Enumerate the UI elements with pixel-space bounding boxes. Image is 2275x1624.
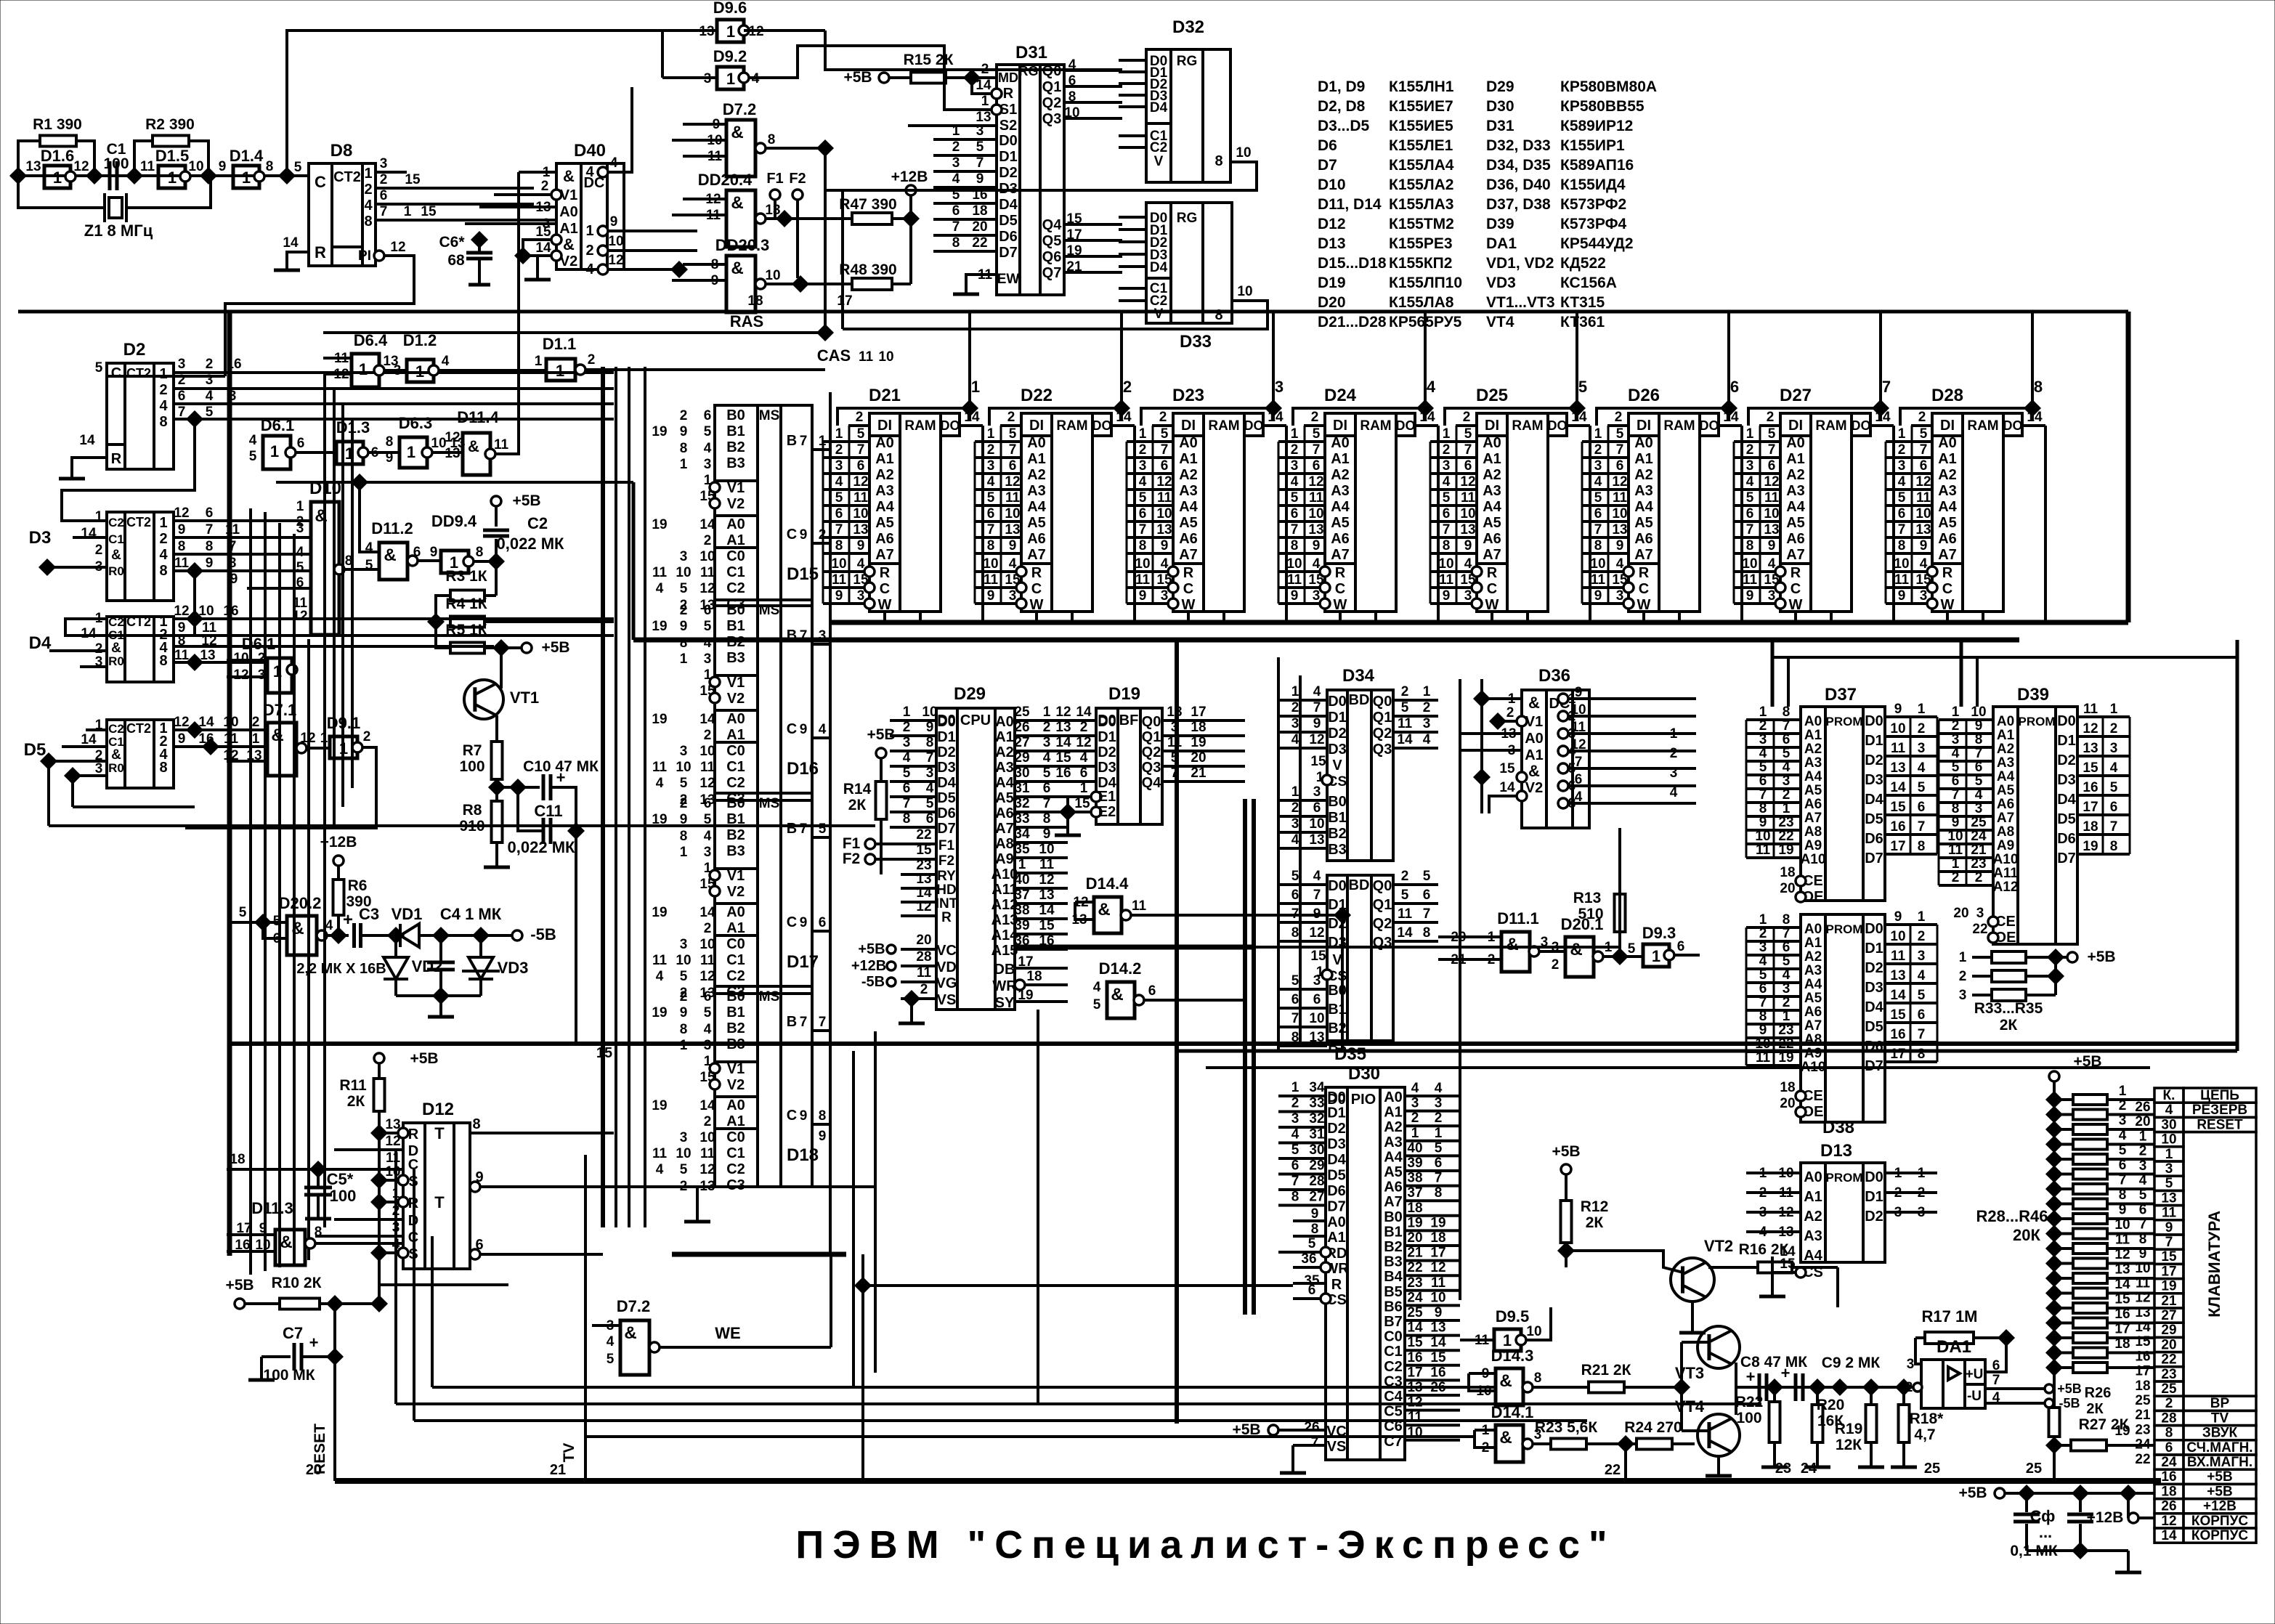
svg-text:2: 2	[1411, 1111, 1419, 1126]
svg-text:20: 20	[1191, 750, 1206, 766]
svg-text:20: 20	[1953, 906, 1968, 921]
svg-text:2: 2	[1291, 1096, 1299, 1111]
svg-text:7: 7	[1746, 522, 1754, 537]
svg-text:D1.6: D1.6	[41, 147, 74, 165]
svg-text:7: 7	[1975, 746, 1983, 761]
svg-text:8: 8	[987, 538, 995, 553]
svg-text:13: 13	[976, 110, 991, 125]
svg-text:23: 23	[2135, 1422, 2150, 1437]
svg-text:C0: C0	[726, 548, 745, 564]
svg-text:9: 9	[800, 527, 808, 543]
svg-text:6: 6	[1291, 1158, 1299, 1174]
svg-text:2: 2	[1759, 718, 1767, 734]
svg-text:2: 2	[1552, 957, 1560, 973]
svg-text:КОРПУС: КОРПУС	[2191, 1528, 2249, 1543]
svg-text:2: 2	[1767, 410, 1775, 425]
svg-text:D3: D3	[1865, 772, 1883, 788]
svg-text:8: 8	[1291, 1190, 1299, 1205]
svg-text:32: 32	[1309, 1111, 1324, 1126]
svg-text:К573РФ4: К573РФ4	[1560, 216, 1627, 232]
svg-text:D1: D1	[937, 729, 956, 745]
svg-text:D39: D39	[1486, 216, 1514, 232]
svg-text:11: 11	[1461, 490, 1476, 506]
svg-text:W: W	[1030, 597, 1044, 613]
svg-text:CPU: CPU	[960, 712, 991, 728]
svg-text:A3: A3	[1027, 483, 1046, 499]
svg-text:18: 18	[1780, 865, 1795, 880]
svg-text:7: 7	[1443, 522, 1451, 537]
svg-text:B3: B3	[726, 843, 745, 859]
svg-text:13: 13	[2114, 1262, 2130, 1278]
svg-text:DD20.4: DD20.4	[698, 171, 753, 189]
svg-text:27: 27	[2161, 1308, 2176, 1323]
svg-text:B3: B3	[726, 650, 745, 666]
svg-text:10: 10	[922, 705, 937, 720]
svg-text:22: 22	[1778, 829, 1793, 844]
svg-text:&: &	[731, 259, 743, 278]
svg-text:9: 9	[1043, 827, 1051, 842]
svg-text:C: C	[787, 914, 797, 930]
svg-text:R24 270: R24 270	[1624, 1419, 1682, 1436]
svg-text:A0: A0	[1179, 435, 1198, 451]
svg-text:10: 10	[1039, 842, 1054, 857]
svg-text:R: R	[1183, 565, 1194, 581]
svg-text:К155ЛП10: К155ЛП10	[1389, 275, 1462, 291]
svg-text:2: 2	[1080, 720, 1088, 735]
svg-text:9: 9	[1768, 538, 1776, 553]
svg-text:9: 9	[976, 171, 984, 187]
svg-text:B: B	[787, 821, 797, 837]
svg-text:R5 1К: R5 1К	[445, 622, 487, 638]
svg-text:19: 19	[652, 812, 667, 827]
svg-text:+5В: +5В	[2207, 1484, 2232, 1499]
svg-text:12: 12	[73, 159, 89, 174]
svg-text:14: 14	[1397, 732, 1413, 747]
svg-text:D14.1: D14.1	[1491, 1403, 1534, 1421]
svg-text:2: 2	[1423, 700, 1431, 715]
svg-text:D0: D0	[1328, 694, 1347, 710]
svg-text:Q0: Q0	[1042, 63, 1062, 79]
svg-text:6: 6	[1161, 458, 1169, 474]
svg-text:23: 23	[1778, 815, 1793, 830]
svg-text:1: 1	[680, 457, 688, 472]
svg-text:C: C	[787, 1108, 797, 1124]
svg-text:5: 5	[2165, 1176, 2173, 1191]
svg-text:DO: DO	[941, 418, 960, 433]
svg-text:12: 12	[1076, 735, 1091, 750]
svg-text:3: 3	[2165, 1161, 2173, 1177]
svg-text:1: 1	[1443, 426, 1451, 442]
svg-text:A5: A5	[995, 790, 1014, 806]
svg-text:7: 7	[1161, 442, 1169, 458]
svg-text:D20.2: D20.2	[279, 894, 322, 912]
svg-text:Q3: Q3	[1042, 111, 1062, 127]
svg-text:B3: B3	[1328, 842, 1347, 858]
svg-text:S: S	[408, 1174, 418, 1190]
svg-text:8: 8	[680, 829, 688, 844]
svg-text:VS: VS	[937, 992, 957, 1008]
svg-text:3: 3	[394, 363, 402, 378]
svg-text:3: 3	[903, 735, 911, 750]
svg-text:20К: 20К	[2013, 1226, 2040, 1244]
svg-text:D4: D4	[999, 197, 1018, 213]
svg-text:C: C	[315, 173, 326, 191]
svg-text:CT2: CT2	[126, 515, 151, 529]
svg-text:VT2: VT2	[1704, 1237, 1733, 1255]
svg-text:11: 11	[1894, 572, 1910, 588]
svg-text:2: 2	[680, 408, 688, 423]
svg-text:A2: A2	[1331, 467, 1350, 483]
svg-text:D2: D2	[1328, 726, 1347, 742]
svg-text:20: 20	[2135, 1114, 2150, 1129]
svg-text:RAM: RAM	[1056, 418, 1087, 434]
svg-text:-5В: -5В	[530, 925, 556, 943]
svg-text:MS: MS	[759, 989, 780, 1004]
svg-text:VD: VD	[936, 959, 957, 975]
svg-text:23: 23	[916, 858, 931, 873]
svg-text:14: 14	[976, 78, 991, 93]
svg-text:3: 3	[1898, 458, 1906, 474]
svg-text:A7: A7	[1179, 547, 1198, 563]
svg-text:8: 8	[1759, 1009, 1767, 1024]
svg-text:A1: A1	[1179, 451, 1198, 467]
svg-text:3: 3	[1976, 906, 1984, 921]
svg-text:5: 5	[249, 449, 257, 464]
svg-text:18: 18	[1026, 969, 1042, 984]
svg-text:3: 3	[857, 588, 865, 604]
svg-text:7: 7	[952, 219, 960, 235]
svg-text:5: 5	[835, 490, 843, 506]
svg-text:17: 17	[837, 293, 852, 309]
svg-text:V: V	[1154, 306, 1164, 322]
svg-text:15: 15	[1499, 761, 1515, 776]
svg-text:9: 9	[1435, 1305, 1443, 1320]
svg-text:7: 7	[835, 522, 843, 537]
svg-text:6: 6	[1043, 781, 1051, 796]
svg-text:1: 1	[1411, 1126, 1419, 1141]
svg-text:10: 10	[1438, 556, 1453, 572]
svg-text:A4: A4	[1331, 499, 1350, 515]
svg-text:A2: A2	[1634, 467, 1653, 483]
svg-text:12: 12	[2135, 1291, 2150, 1306]
svg-text:10: 10	[1894, 556, 1909, 572]
svg-text:22: 22	[1605, 1462, 1621, 1478]
svg-text:10: 10	[2161, 1132, 2176, 1148]
svg-text:V2: V2	[727, 884, 745, 900]
svg-text:15: 15	[421, 204, 437, 219]
svg-text:DA1: DA1	[1937, 1337, 1971, 1357]
svg-text:2: 2	[1594, 442, 1602, 458]
svg-text:D3: D3	[937, 760, 956, 776]
svg-text:DO: DO	[2003, 418, 2023, 433]
svg-text:S2: S2	[999, 118, 1017, 134]
svg-text:19: 19	[652, 517, 667, 532]
svg-text:8: 8	[1214, 153, 1222, 169]
svg-text:3: 3	[1594, 458, 1602, 474]
svg-text:C: C	[1487, 581, 1497, 597]
svg-text:6: 6	[704, 989, 712, 1004]
svg-text:17: 17	[1191, 705, 1206, 720]
svg-text:8: 8	[386, 434, 394, 450]
svg-text:10: 10	[1526, 1324, 1541, 1339]
svg-text:1: 1	[971, 378, 980, 396]
svg-text:8: 8	[1952, 801, 1960, 816]
svg-text:&: &	[1499, 1428, 1512, 1448]
svg-text:12: 12	[2161, 1514, 2176, 1529]
svg-text:КЛАВИАТУРА: КЛАВИАТУРА	[2205, 1211, 2223, 1318]
svg-text:R: R	[1335, 565, 1346, 581]
svg-text:10: 10	[1590, 556, 1605, 572]
svg-text:D39: D39	[2017, 685, 2049, 705]
svg-text:4: 4	[1783, 967, 1791, 983]
svg-text:11: 11	[700, 953, 715, 968]
svg-text:2: 2	[920, 982, 928, 997]
svg-text:5: 5	[680, 776, 688, 791]
svg-text:3: 3	[1411, 1096, 1419, 1111]
svg-text:D19: D19	[1108, 684, 1140, 704]
svg-text:11: 11	[700, 760, 715, 775]
svg-text:17: 17	[2161, 1264, 2176, 1279]
svg-text:3: 3	[1313, 588, 1321, 604]
svg-text:32: 32	[1014, 796, 1029, 811]
svg-text:27: 27	[1014, 735, 1029, 750]
svg-text:6: 6	[1009, 458, 1017, 474]
svg-text:3: 3	[680, 549, 688, 564]
svg-text:9: 9	[857, 538, 865, 553]
svg-text:К155ИД4: К155ИД4	[1560, 176, 1626, 193]
svg-text:20: 20	[2161, 1337, 2176, 1352]
svg-text:14: 14	[1499, 780, 1515, 795]
svg-text:+: +	[343, 910, 353, 930]
svg-text:11: 11	[1916, 490, 1931, 506]
svg-text:9: 9	[1759, 815, 1767, 830]
svg-text:D32: D32	[1172, 17, 1204, 37]
svg-text:D1.5: D1.5	[155, 147, 189, 165]
svg-text:6: 6	[1952, 774, 1960, 789]
svg-text:2: 2	[585, 243, 593, 259]
svg-text:5: 5	[95, 360, 103, 375]
svg-text:RAS: RAS	[730, 312, 763, 330]
svg-text:3: 3	[2139, 1158, 2147, 1174]
svg-text:Q2: Q2	[1373, 916, 1392, 932]
svg-text:10: 10	[1309, 1011, 1324, 1026]
svg-text:&: &	[111, 548, 121, 563]
svg-text:2: 2	[1007, 410, 1015, 425]
svg-text:3: 3	[392, 1220, 400, 1235]
svg-text:11: 11	[652, 953, 668, 968]
svg-text:A3: A3	[1179, 483, 1198, 499]
svg-text:3: 3	[1423, 716, 1431, 731]
svg-text:3: 3	[1291, 716, 1299, 731]
svg-text:2: 2	[2165, 1396, 2173, 1411]
svg-text:12: 12	[445, 430, 460, 445]
svg-text:7: 7	[1139, 522, 1147, 537]
svg-text:D0: D0	[1865, 921, 1883, 937]
svg-text:C1: C1	[108, 532, 124, 546]
svg-text:13: 13	[2161, 1190, 2176, 1206]
svg-text:15: 15	[1890, 800, 1906, 815]
svg-text:17: 17	[2114, 1322, 2130, 1337]
svg-text:Q2: Q2	[1373, 726, 1392, 742]
svg-text:13: 13	[1764, 522, 1779, 537]
svg-text:D5: D5	[1327, 1168, 1346, 1184]
svg-text:C4 1 МК: C4 1 МК	[440, 905, 502, 923]
svg-text:2: 2	[1139, 442, 1147, 458]
svg-text:15: 15	[699, 489, 715, 504]
svg-text:R10 2К: R10 2К	[272, 1275, 322, 1291]
svg-text:4: 4	[903, 750, 911, 766]
svg-text:A3: A3	[1938, 483, 1957, 499]
svg-text:8: 8	[159, 653, 167, 669]
svg-text:R: R	[408, 1195, 419, 1211]
svg-text:6: 6	[857, 458, 865, 474]
svg-text:5: 5	[1783, 954, 1791, 969]
svg-text:14: 14	[1875, 410, 1891, 425]
svg-text:5: 5	[1291, 490, 1299, 506]
svg-text:ВХ.МАГН.: ВХ.МАГН.	[2187, 1455, 2252, 1470]
svg-text:21: 21	[2135, 1408, 2151, 1423]
svg-text:5: 5	[1161, 426, 1169, 442]
svg-text:A10: A10	[1993, 852, 2019, 867]
svg-text:3: 3	[1783, 981, 1791, 996]
svg-text:D16: D16	[787, 759, 819, 779]
svg-text:23: 23	[1971, 856, 1986, 872]
svg-text:9: 9	[178, 731, 186, 747]
svg-text:+5В: +5В	[1958, 1485, 1987, 1501]
svg-text:5: 5	[1464, 426, 1472, 442]
svg-text:15: 15	[1310, 949, 1326, 964]
svg-text:8: 8	[680, 441, 688, 456]
svg-text:DA1: DA1	[1486, 235, 1517, 252]
svg-text:A2: A2	[1179, 467, 1198, 483]
svg-text:1: 1	[1759, 705, 1767, 720]
svg-text:6: 6	[819, 915, 827, 930]
svg-text:DO: DO	[1396, 418, 1416, 433]
svg-text:A8: A8	[1997, 824, 2014, 840]
svg-text:12: 12	[2083, 721, 2098, 736]
svg-text:R47 390: R47 390	[839, 196, 896, 213]
svg-text:D9.3: D9.3	[1642, 924, 1676, 942]
svg-text:A5: A5	[1786, 515, 1805, 531]
svg-text:4: 4	[159, 398, 168, 414]
svg-text:4: 4	[1291, 474, 1299, 490]
svg-text:8: 8	[680, 1022, 688, 1037]
svg-text:W: W	[1485, 597, 1499, 613]
svg-text:3: 3	[952, 155, 960, 171]
svg-text:8: 8	[1746, 538, 1754, 553]
svg-text:A2: A2	[1786, 467, 1805, 483]
svg-text:4: 4	[987, 474, 995, 490]
svg-text:A2: A2	[995, 744, 1014, 760]
svg-text:A1: A1	[1331, 451, 1350, 467]
svg-text:D1: D1	[1865, 733, 1883, 749]
svg-text:3: 3	[704, 651, 712, 667]
svg-text:СЧ.МАГН.: СЧ.МАГН.	[2186, 1440, 2252, 1455]
svg-text:1: 1	[1759, 912, 1767, 927]
svg-text:11: 11	[1764, 490, 1780, 506]
svg-text:11: 11	[1743, 572, 1758, 588]
svg-text:8: 8	[206, 539, 214, 554]
svg-text:3: 3	[1464, 588, 1472, 604]
svg-text:A6: A6	[1634, 531, 1653, 547]
svg-text:C1: C1	[726, 1145, 745, 1161]
svg-text:16: 16	[2135, 1349, 2150, 1364]
svg-text:34: 34	[1309, 1080, 1325, 1095]
svg-text:1: 1	[2139, 1129, 2147, 1144]
svg-text:19: 19	[652, 905, 667, 920]
svg-text:25: 25	[2161, 1381, 2177, 1397]
svg-text:A4: A4	[1027, 499, 1046, 515]
svg-text:C1: C1	[1384, 1344, 1403, 1360]
svg-text:C: C	[1942, 581, 1952, 597]
svg-text:D21: D21	[869, 386, 901, 405]
svg-text:1: 1	[1959, 950, 1967, 965]
svg-text:2: 2	[1783, 787, 1791, 803]
svg-text:3: 3	[1768, 588, 1776, 604]
svg-text:R: R	[1791, 565, 1801, 581]
svg-text:A5: A5	[1997, 783, 2015, 798]
svg-text:12: 12	[174, 506, 189, 521]
svg-text:14: 14	[1571, 410, 1587, 425]
svg-text:11: 11	[652, 760, 668, 775]
svg-text:2: 2	[1435, 1111, 1443, 1126]
svg-text:9: 9	[680, 1005, 688, 1020]
svg-text:18: 18	[972, 203, 987, 219]
svg-text:2: 2	[1975, 870, 1983, 885]
svg-text:9: 9	[178, 522, 186, 537]
svg-text:&: &	[1506, 935, 1518, 954]
svg-text:A0: A0	[1384, 1089, 1403, 1105]
svg-text:D6.3: D6.3	[399, 414, 432, 432]
svg-text:29: 29	[1014, 750, 1029, 766]
svg-text:D11.1: D11.1	[1497, 909, 1539, 927]
svg-text:DI: DI	[877, 418, 892, 434]
svg-text:21: 21	[1191, 766, 1207, 781]
svg-text:D9.2: D9.2	[713, 47, 747, 65]
svg-text:22: 22	[1972, 922, 1987, 937]
svg-text:34: 34	[1014, 827, 1030, 842]
svg-text:13: 13	[1055, 720, 1071, 735]
svg-text:2: 2	[541, 179, 549, 194]
svg-text:1: 1	[1435, 1126, 1443, 1141]
svg-text:D3: D3	[1327, 1137, 1346, 1153]
svg-text:15: 15	[1055, 750, 1071, 766]
svg-text:1: 1	[404, 204, 412, 219]
svg-text:4: 4	[1918, 760, 1926, 776]
svg-text:VS: VS	[1327, 1439, 1347, 1455]
svg-text:8: 8	[1783, 705, 1791, 720]
svg-text:1: 1	[952, 123, 960, 139]
svg-text:10: 10	[1460, 506, 1475, 521]
svg-text:5: 5	[1759, 967, 1767, 983]
svg-text:4: 4	[364, 198, 373, 214]
svg-text:13: 13	[1890, 968, 1905, 983]
svg-text:A6: A6	[1804, 797, 1822, 812]
svg-text:5: 5	[206, 405, 214, 420]
svg-text:D1: D1	[2057, 733, 2076, 749]
svg-text:R12: R12	[1581, 1198, 1609, 1215]
svg-text:510: 510	[1578, 906, 1603, 922]
svg-text:A1: A1	[1786, 451, 1805, 467]
svg-text:КС156А: КС156А	[1560, 275, 1617, 291]
svg-text:10: 10	[1156, 506, 1172, 521]
svg-text:B7: B7	[1384, 1314, 1403, 1330]
svg-text:D23: D23	[1172, 386, 1204, 405]
svg-text:B6: B6	[1384, 1299, 1403, 1315]
svg-text:7: 7	[1464, 442, 1472, 458]
svg-text:5: 5	[857, 426, 865, 442]
svg-text:КР580ВМ80А: КР580ВМ80А	[1560, 78, 1657, 95]
